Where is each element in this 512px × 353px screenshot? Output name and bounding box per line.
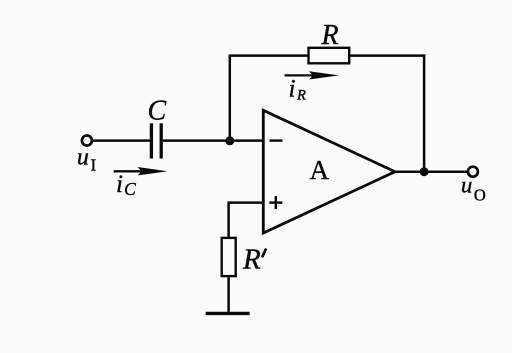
op-amp A bbox=[263, 110, 395, 233]
svg-text:R: R bbox=[242, 243, 261, 275]
label R' bbox=[242, 243, 266, 275]
svg-text:C: C bbox=[148, 96, 167, 127]
current arrow i_C bbox=[114, 167, 168, 176]
op-amp non-inverting pin marking (plus) bbox=[269, 196, 282, 209]
ground bbox=[206, 312, 250, 315]
capacitor C bbox=[151, 123, 161, 158]
node: output junction bbox=[420, 167, 429, 176]
wire: non-inverting input horizontal bbox=[229, 201, 264, 204]
resistor R' bbox=[222, 238, 236, 276]
wire: non-inverting corner down to R' bbox=[227, 201, 230, 238]
wire: top-left corner to resistor R bbox=[229, 54, 309, 57]
wire: feedback right vertical bbox=[423, 54, 426, 171]
resistor R bbox=[309, 48, 350, 64]
current arrow i_R bbox=[285, 71, 340, 79]
svg-text:A: A bbox=[310, 155, 330, 185]
wire: capacitor to inverting input bbox=[163, 139, 264, 142]
wire: resistor R to top-right corner bbox=[349, 54, 425, 57]
node: inverting input junction bbox=[225, 136, 234, 145]
wire: input terminal to capacitor bbox=[92, 139, 150, 142]
wire: op-amp output bbox=[394, 170, 468, 173]
op-amp inverting pin marking (minus) bbox=[270, 139, 283, 141]
wire: R' to ground bbox=[227, 276, 230, 313]
wire: feedback left vertical bbox=[229, 56, 232, 141]
svg-text:R: R bbox=[321, 20, 339, 51]
output terminal u_O bbox=[468, 167, 478, 177]
input terminal u_I bbox=[82, 136, 92, 146]
